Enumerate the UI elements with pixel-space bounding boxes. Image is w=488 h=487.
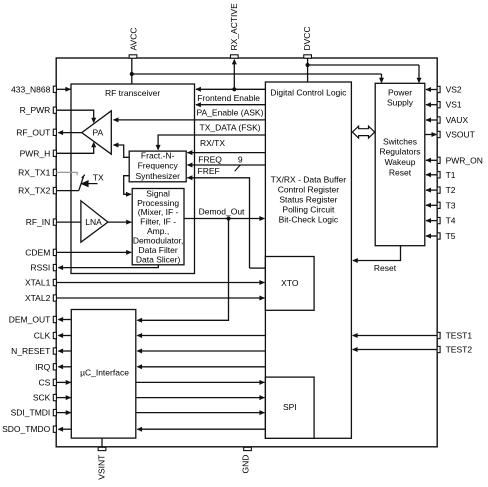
- svg-text:AVCC: AVCC: [129, 28, 139, 51]
- amplifier PA: [82, 111, 112, 154]
- pin TEST1: [437, 331, 472, 341]
- wire RX_ACTIVE: [232, 59, 237, 92]
- wire RF_IN to LNA: [56, 221, 81, 223]
- wire VSOUT from Power Supply: [425, 132, 437, 137]
- pin PWR_ON: [437, 155, 483, 165]
- svg-text:VSOUT: VSOUT: [446, 130, 475, 140]
- wire Reset: [352, 246, 400, 273]
- wire RX_TX2: [56, 190, 78, 192]
- wire FREQ: [187, 150, 266, 171]
- svg-text:N_RESET: N_RESET: [11, 346, 50, 356]
- Digital Control Logic description: [271, 174, 347, 224]
- wire VSINT from uC: [101, 438, 103, 447]
- pin AVCC: [129, 28, 139, 59]
- wire Demod_Out: [137, 207, 266, 323]
- wire IRQ from DCL to uC: [137, 364, 266, 369]
- wire VS1 to Power Supply: [425, 102, 437, 107]
- wire CDEM to Signal Processing: [56, 250, 131, 255]
- svg-text:Switches: Switches: [383, 136, 417, 146]
- block SPI: [265, 377, 314, 438]
- pin PWR_H: [20, 148, 57, 158]
- svg-text:(Mixer, IF -: (Mixer, IF -: [138, 207, 179, 217]
- wire N_RESET from uC: [58, 349, 72, 354]
- svg-text:DEM_OUT: DEM_OUT: [9, 315, 51, 325]
- pin TEST2: [437, 345, 472, 355]
- wire DEM_OUT from uC: [58, 317, 72, 322]
- svg-text:433_N868: 433_N868: [11, 84, 51, 94]
- block Fract.-N-Frequency Synthesizer: [129, 150, 186, 181]
- wire XTO to synthesizer: [187, 175, 266, 268]
- wire synthesizer to Signal Processing: [124, 176, 132, 197]
- svg-text:Control Register: Control Register: [278, 184, 340, 194]
- pin CLK: [34, 331, 57, 341]
- bus DCL to Power Supply (double arrow): [352, 126, 374, 138]
- wire VS2 to Power Supply: [425, 87, 437, 92]
- svg-text:RF transceiver: RF transceiver: [105, 88, 160, 98]
- svg-text:LNA: LNA: [85, 217, 102, 227]
- wire 433_N868 to RF transceiver: [56, 87, 71, 92]
- svg-text:VS2: VS2: [446, 85, 462, 95]
- pin CDEM: [25, 247, 56, 257]
- svg-text:R_PWR: R_PWR: [20, 105, 51, 115]
- label TX with arrow: [80, 172, 104, 187]
- svg-text:GND: GND: [241, 455, 251, 474]
- wire CLK from DCL to uC: [137, 333, 266, 338]
- svg-text:RF_IN: RF_IN: [26, 217, 51, 227]
- svg-text:TX_DATA (FSK): TX_DATA (FSK): [200, 122, 261, 132]
- svg-text:TX/RX - Data Buffer: TX/RX - Data Buffer: [271, 174, 347, 184]
- pin CS: [38, 377, 56, 387]
- svg-text:T1: T1: [446, 170, 456, 180]
- wire Frontend Enable: [195, 87, 265, 103]
- svg-text:Regulators: Regulators: [379, 146, 420, 156]
- svg-text:SDO_TMDO: SDO_TMDO: [2, 424, 51, 434]
- wire PWR_ON to Power Supply: [425, 158, 437, 163]
- pin RF_OUT: [16, 127, 56, 137]
- svg-text:FREF: FREF: [198, 166, 220, 176]
- wire SCK to uC: [56, 395, 71, 400]
- pin VSINT: [96, 447, 106, 479]
- wire PWR_H to PA: [56, 142, 96, 154]
- svg-text:PA_Enable (ASK): PA_Enable (ASK): [197, 108, 264, 118]
- pin XTAL1: [25, 278, 56, 288]
- Power Supply description: [379, 136, 420, 177]
- svg-text:Reset: Reset: [389, 167, 412, 177]
- pin T1: [437, 170, 456, 180]
- svg-text:Digital Control Logic: Digital Control Logic: [270, 88, 347, 98]
- svg-text:T2: T2: [446, 185, 456, 195]
- svg-text:T5: T5: [446, 231, 456, 241]
- block uC_Interface: [71, 310, 136, 439]
- wire T1 to Power Supply: [425, 172, 437, 177]
- svg-text:FREQ: FREQ: [198, 155, 222, 165]
- pin DVCC: [302, 26, 312, 58]
- pin 433_N868: [11, 84, 56, 94]
- wire RF_OUT from PA: [58, 130, 82, 135]
- wire CS from uC to SPI: [136, 380, 265, 385]
- pin DEM_OUT: [9, 315, 57, 325]
- wire SCK from uC to SPI: [136, 395, 265, 400]
- svg-text:Wakeup: Wakeup: [385, 157, 416, 167]
- pin RX_TX1: [18, 167, 56, 177]
- pin VAUX: [437, 115, 468, 125]
- svg-text:SCK: SCK: [33, 393, 51, 403]
- pin SDI_TMDI: [11, 408, 57, 418]
- block Power Supply: [375, 83, 425, 245]
- pin GND: [241, 447, 252, 473]
- wire RSSI from Signal Processing: [58, 265, 159, 270]
- wire synthesizer to PA: [113, 143, 129, 158]
- wire XTAL2 to XTO: [56, 296, 265, 301]
- svg-text:9: 9: [238, 155, 243, 165]
- svg-text:Frontend Enable: Frontend Enable: [197, 93, 260, 103]
- svg-text:Status Register: Status Register: [279, 194, 337, 204]
- wire T5 to Power Supply: [425, 234, 437, 239]
- switch TX lever: [79, 175, 85, 191]
- wire SDO_TMDO from uC: [58, 427, 72, 432]
- wire T4 to Power Supply: [425, 218, 437, 223]
- wire T2 to Power Supply: [425, 188, 437, 193]
- pin RF_IN: [26, 217, 57, 227]
- svg-text:DVCC: DVCC: [302, 26, 312, 50]
- wire R_PWR to PA: [56, 110, 96, 123]
- wire T3 to Power Supply: [425, 203, 437, 208]
- wire SDI_TMDI from uC to SPI: [136, 410, 265, 415]
- svg-text:T4: T4: [446, 216, 456, 226]
- svg-text:RX/TX: RX/TX: [200, 138, 225, 148]
- pin RSSI: [30, 263, 56, 273]
- svg-text:PA: PA: [92, 127, 103, 137]
- wire RX_TX1 (gray): [56, 172, 77, 175]
- pin T2: [437, 185, 456, 195]
- svg-text:VS1: VS1: [446, 100, 462, 110]
- pin IRQ: [35, 362, 56, 372]
- block XTO: [265, 257, 314, 311]
- svg-text:Frequency: Frequency: [138, 161, 179, 171]
- wire AVCC: [130, 58, 384, 84]
- svg-text:IRQ: IRQ: [35, 362, 51, 372]
- svg-text:XTAL2: XTAL2: [25, 293, 51, 303]
- pin VS2: [437, 85, 462, 95]
- svg-text:Data Slicer): Data Slicer): [136, 254, 181, 264]
- wire TEST1 to DCL: [352, 333, 437, 338]
- svg-text:Power: Power: [388, 87, 412, 97]
- svg-text:µC_Interface: µC_Interface: [80, 368, 129, 378]
- pin N_RESET: [11, 346, 56, 356]
- svg-text:Bit-Check Logic: Bit-Check Logic: [279, 215, 339, 225]
- pin RX_TX2: [18, 186, 56, 196]
- svg-text:Supply: Supply: [387, 98, 414, 108]
- svg-text:Demod_Out: Demod_Out: [199, 207, 245, 217]
- svg-text:VAUX: VAUX: [446, 115, 469, 125]
- wire FREF: [187, 163, 266, 177]
- pin RX_ACTIVE: [229, 3, 239, 58]
- svg-text:PWR_ON: PWR_ON: [446, 155, 483, 165]
- wire PA_Enable (ASK): [195, 102, 265, 118]
- pin R_PWR: [20, 105, 57, 115]
- svg-text:TEST1: TEST1: [446, 331, 473, 341]
- wire CLK from uC: [58, 333, 72, 338]
- svg-text:RSSI: RSSI: [30, 263, 50, 273]
- svg-text:XTAL1: XTAL1: [25, 278, 51, 288]
- pin T3: [437, 200, 456, 210]
- wire VAUX to Power Supply: [425, 118, 437, 123]
- pin VS1: [437, 100, 462, 110]
- svg-text:XTO: XTO: [281, 278, 299, 288]
- svg-text:T3: T3: [446, 200, 456, 210]
- pin T5: [437, 231, 456, 241]
- pin T4: [437, 216, 456, 226]
- pin SDO_TMDO: [2, 424, 56, 434]
- wire CS to uC: [56, 380, 71, 385]
- pin SCK: [33, 393, 57, 403]
- wire LNA to Signal Processing: [108, 220, 132, 225]
- amplifier LNA: [81, 201, 108, 242]
- svg-text:CS: CS: [38, 377, 50, 387]
- pin VSOUT: [437, 130, 475, 140]
- wire TX_DATA (FSK): [113, 117, 266, 132]
- wire TEST2 to DCL: [352, 347, 437, 352]
- wire IRQ from uC: [58, 364, 72, 369]
- svg-text:RF_OUT: RF_OUT: [16, 127, 50, 137]
- wire N_RESET from DCL to uC: [137, 349, 266, 354]
- svg-text:SPI: SPI: [283, 402, 297, 412]
- wire DVCC: [306, 58, 422, 83]
- svg-text:RX_TX2: RX_TX2: [18, 186, 50, 196]
- block RF transceiver: [71, 84, 195, 274]
- block Digital Control Logic: [265, 82, 351, 438]
- wire XTAL1 to XTO: [56, 280, 265, 285]
- svg-text:Polling Circuit: Polling Circuit: [282, 205, 335, 215]
- svg-text:VSINT: VSINT: [96, 455, 106, 480]
- wire SDO_TMDO from SPI to uC: [137, 427, 266, 432]
- svg-text:CDEM: CDEM: [25, 247, 50, 257]
- svg-text:Fract.-N-: Fract.-N-: [141, 150, 175, 160]
- svg-text:SDI_TMDI: SDI_TMDI: [11, 408, 51, 418]
- svg-text:PWR_H: PWR_H: [20, 148, 51, 158]
- svg-text:TX: TX: [93, 172, 104, 182]
- svg-text:Reset: Reset: [374, 263, 397, 273]
- wire SDI_TMDI to uC: [56, 410, 71, 415]
- block Signal Processing: [132, 188, 184, 264]
- pin XTAL2: [25, 293, 56, 303]
- svg-text:TEST2: TEST2: [446, 345, 473, 355]
- svg-text:CLK: CLK: [34, 331, 51, 341]
- svg-text:RX_ACTIVE: RX_ACTIVE: [229, 3, 239, 51]
- svg-text:Synthesizer: Synthesizer: [135, 171, 180, 181]
- wire RX/TX: [156, 135, 266, 151]
- chip boundary: [56, 58, 437, 447]
- svg-text:RX_TX1: RX_TX1: [18, 167, 50, 177]
